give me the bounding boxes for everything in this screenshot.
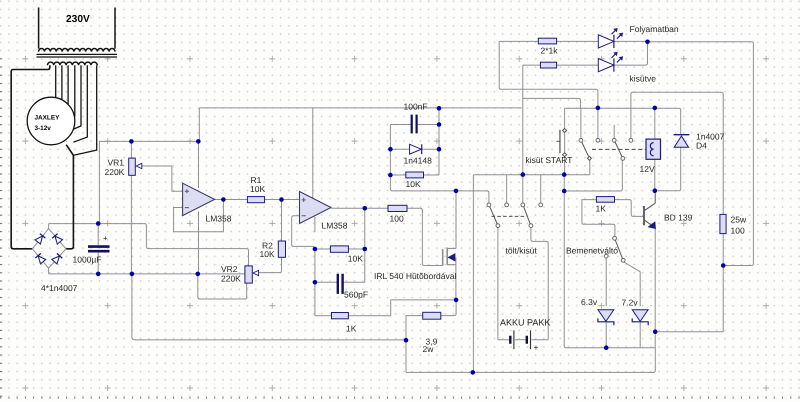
wire charge contact to battery left: [497, 227, 499, 339]
resistor 1K BD139: [596, 197, 614, 203]
wire bus y174.8: [473, 174, 589, 176]
resistor 1K op-amp: [332, 313, 349, 319]
wire LED2 feed: [523, 64, 541, 66]
wire secondary tap 4: [67, 65, 69, 108]
svg-text:+: +: [103, 234, 108, 243]
wire secondary tap 5: [71, 65, 75, 119]
wire 6.3v zener top lead: [605, 258, 607, 306]
switch Bemenetvalto lever: [615, 240, 622, 259]
svg-text:+: +: [534, 343, 539, 353]
svg-text:JAXLEY: JAXLEY: [35, 115, 61, 122]
wire feedback 10K leads: [315, 248, 365, 250]
svg-text:tölt/kisüt: tölt/kisüt: [506, 246, 538, 256]
svg-text:VR1: VR1: [108, 158, 125, 168]
wire op-amp U2 + input: [282, 199, 300, 201]
wire VR1 column x131.4: [130, 141, 132, 274]
wire bridge - output rail y273.9: [49, 268, 245, 274]
svg-text:LM358: LM358: [206, 214, 232, 224]
wire relay contact B common to node: [564, 160, 622, 191]
wire ground column x131.9 to bottom rail: [132, 274, 406, 340]
wire discharge contact to battery right: [531, 227, 548, 339]
svg-text:25w: 25w: [731, 215, 747, 225]
zener diode 6.3v: [598, 310, 614, 322]
pushbutton kisut START: [563, 129, 567, 157]
svg-text:1K: 1K: [596, 204, 607, 214]
battery AKKU PAKK cells: [510, 336, 527, 344]
wire secondary tap 7: [73, 65, 87, 142]
switch tolt/kisut contact 3: [521, 203, 525, 207]
svg-text:220K: 220K: [221, 274, 241, 284]
relay contact A1: [579, 138, 583, 142]
resistor 25w 100: [720, 214, 726, 233]
switch tolt/kisut link: [492, 215, 527, 217]
wire op-amp U2 V+ pin: [312, 108, 314, 198]
wire battery leads: [498, 339, 548, 341]
LED D2 kisutve: [598, 59, 614, 72]
wire column x564.2 with ground elbow: [564, 175, 655, 348]
wire output column x364.8: [364, 208, 366, 282]
wire riser switch contact 2: [506, 175, 508, 203]
switch Bemenetvalto 6.3v contact: [604, 254, 608, 258]
wire op-amp U1 feedback loop: [174, 200, 224, 232]
switch tolt/kisut lever 2: [524, 207, 531, 224]
wire column x473.4: [472, 175, 474, 373]
potentiometer VR1 220K: [129, 158, 136, 175]
wire bottom ground rail y372.4: [406, 348, 655, 373]
wire secondary tap 1 to bridge left: [11, 65, 50, 249]
wire zener bottoms to rail: [606, 322, 640, 348]
svg-text:12V: 12V: [640, 164, 655, 174]
wire MOSFET drain riser x456: [455, 191, 457, 249]
svg-text:230V: 230V: [66, 14, 90, 25]
wire relay contact A1 riser x580.9: [580, 108, 582, 138]
svg-text:LM358: LM358: [322, 221, 348, 231]
relay contact B lever: [615, 142, 622, 157]
wire corner rail riser x199.3: [198, 108, 200, 141]
wire kisutve-feed vertical column x522.8: [522, 65, 524, 175]
diode D4 1n4007: [674, 134, 690, 136]
potentiometer VR2 220K: [245, 266, 252, 283]
relay K1 coil 12V: [646, 139, 661, 159]
wire VR2 bottom return loop: [198, 274, 247, 299]
diode bridge D-BR: [52, 253, 63, 264]
svg-text:Folyamatban: Folyamatban: [630, 24, 679, 34]
wire 100nF left column x390.4: [389, 125, 391, 176]
svg-text:10K: 10K: [250, 184, 265, 194]
resistor 2*1k lower: [540, 62, 556, 68]
wire relay coil leads: [654, 108, 656, 191]
switch tolt/kisut contact 2: [505, 203, 509, 207]
diode bridge D-BL: [35, 253, 46, 264]
wire top +V rail right segment: [565, 108, 681, 135]
wire riser switch contact 4: [540, 175, 542, 203]
wire BD139 emitter column: [654, 228, 656, 347]
wire secondary tap 6: [72, 65, 81, 130]
svg-text:560pF: 560pF: [344, 290, 368, 300]
svg-text:Bemenetváltó: Bemenetváltó: [566, 246, 618, 256]
resistor 10K diode-row: [406, 172, 424, 178]
wire cap column x98.2: [97, 224, 99, 274]
wire MOSFET gate hook: [422, 210, 442, 265]
resistor 2*1k upper: [538, 38, 556, 44]
wire diode 1n4148 leads: [390, 148, 439, 150]
wire stub contact B1: [613, 125, 615, 139]
relay contact B1: [612, 138, 616, 142]
wire pushbutton column x564.6: [564, 108, 566, 174]
capacitor C1 1000uF plates: [88, 247, 110, 252]
svg-text:4*1n4007: 4*1n4007: [41, 283, 78, 293]
svg-text:BD 139: BD 139: [664, 213, 693, 223]
relay contact A lever: [582, 142, 589, 157]
svg-text:3-12v: 3-12v: [35, 125, 52, 132]
svg-text:220K: 220K: [105, 167, 125, 177]
wire 100nF cap leads: [390, 124, 439, 126]
wire bridge + output to cap and staircase to VR2 top: [49, 224, 249, 266]
diode bridge D-TR: [52, 234, 63, 245]
wire riser switch contact 3: [522, 175, 524, 203]
wire 1K BD139 left lead loop to switch: [582, 200, 615, 237]
bridge rectifier diamond: [32, 229, 66, 269]
svg-text:IRL 540 Hûtõbordával: IRL 540 Hûtõbordával: [374, 271, 456, 281]
svg-text:2*1k: 2*1k: [541, 46, 559, 56]
resistor 3,9 2w: [423, 312, 441, 319]
switch tolt/kisut lever 1: [490, 207, 498, 224]
wire riser x99.4 rail to cap node: [98, 141, 100, 223]
switch Bemenetvalto lower contact: [621, 258, 625, 262]
wire jog y98.4 to x580.4: [523, 98, 581, 108]
wire secondary tap 8: [74, 65, 97, 155]
transformer secondary winding: [48, 62, 98, 65]
wire op-amp U1 output row: [215, 199, 300, 201]
transformer TR1 primary winding: [39, 8, 115, 52]
switch tolt/kisut pole 2 common: [529, 224, 533, 228]
wire zener lever diagonal to 7.2v: [624, 262, 640, 306]
svg-text:AKKU PAKK: AKKU PAKK: [500, 318, 550, 328]
switch tolt/kisut contact 4: [539, 203, 543, 207]
resistor 100 gate: [388, 205, 407, 211]
svg-text:7.2v: 7.2v: [622, 298, 639, 308]
wire op-amp U2 output row: [331, 208, 422, 212]
resistor R2 10K: [278, 241, 285, 257]
wire LED supply right rail: [648, 42, 754, 266]
zener diode 7.2v: [632, 310, 648, 322]
transformer core: [37, 54, 118, 57]
wire 10K diode-row leads: [390, 174, 439, 176]
wire top +V rail left segment: [199, 107, 521, 109]
svg-text:kisütve: kisütve: [630, 74, 657, 84]
svg-text:6.3v: 6.3v: [581, 297, 598, 307]
op-amp U1 LM358: [183, 183, 215, 215]
diode D 1n4148: [410, 144, 422, 154]
wire R2 column: [259, 200, 282, 273]
wire source node to 1K: [391, 300, 456, 316]
wire op-amp U2 V- stub: [314, 217, 316, 233]
svg-text:D4: D4: [696, 141, 707, 151]
svg-text:10K: 10K: [406, 179, 421, 189]
capacitor 100nF: [412, 115, 417, 134]
wire op-amp U1 V- pin to rail: [198, 212, 200, 274]
wire +V sub-rail y141.4: [99, 140, 198, 142]
wire resistor 3,9 left lead down x406: [406, 316, 423, 373]
svg-text:10K: 10K: [348, 254, 363, 264]
svg-text:1000µF: 1000µF: [73, 255, 102, 265]
svg-text:1n4148: 1n4148: [404, 156, 433, 166]
capacitor 560pF: [338, 274, 343, 294]
wire selector output to bridge right: [66, 145, 74, 249]
svg-text:2w: 2w: [423, 344, 435, 354]
switch Bemenetvalto upper contact: [613, 236, 617, 240]
switch tolt/kisut pole 1 common: [496, 224, 500, 228]
svg-text:10K: 10K: [260, 249, 275, 259]
wire 1K BD139 right lead to base: [615, 200, 645, 217]
wire 560pF leads: [315, 281, 365, 283]
diode bridge D-TL: [35, 234, 46, 245]
wire inverting node column x314.9: [315, 249, 332, 316]
wire contact B2 loop over to 25w resistor: [631, 92, 723, 214]
wire 1K op-amp right lead: [348, 315, 390, 317]
wire 25w bottom to emitter rail: [655, 234, 723, 332]
junction dots: [129, 139, 134, 144]
wire secondary tap 3: [61, 65, 63, 103]
wire LED1 feed: [499, 40, 538, 42]
LED D1 Folyamatban: [598, 35, 614, 48]
svg-text:100: 100: [390, 214, 404, 224]
resistor 10K feedback: [330, 246, 348, 252]
wire MOSFET source column: [455, 257, 457, 300]
wire VR1 wiper to op-amp U1 + input: [142, 166, 183, 191]
svg-text:VR2: VR2: [221, 264, 238, 274]
rotary selector S1 Jaxley circle: [27, 97, 75, 145]
wire relay contact A lever-end drop x589.8: [589, 160, 591, 175]
wire LED1 row leads: [557, 40, 648, 42]
relay contact A lever diamond: [587, 156, 591, 160]
wire op-amp U2 - input loop: [292, 216, 315, 249]
wire right column x439: [438, 108, 440, 175]
svg-text:100nF: 100nF: [404, 102, 428, 112]
switch tolt/kisut contact 1: [487, 203, 491, 207]
wire collector node to diode D4: [655, 147, 681, 190]
wire op-amp U1 V+ pin from rail: [198, 141, 200, 188]
op-amp U2 LM358: [300, 192, 332, 224]
relay mechanical link dashed: [592, 148, 646, 150]
wire resistor 3,9 right lead to source node: [441, 300, 456, 316]
svg-text:100: 100: [731, 226, 745, 236]
svg-text:kisüt START: kisüt START: [526, 155, 573, 165]
svg-text:1K: 1K: [346, 324, 357, 334]
wire LED2 row leads: [557, 42, 648, 65]
relay contact B2: [629, 138, 633, 142]
wire 10K-column to switch contact 1: [390, 175, 489, 203]
wire LED1 feed loop to contact A2: [499, 41, 598, 138]
resistor R1 10K: [247, 197, 264, 203]
relay contact B common circle: [621, 157, 625, 161]
wire secondary tap 2: [55, 65, 57, 99]
transistor Q1 IRL540: [442, 249, 444, 266]
transistor Q2 BD139: [643, 206, 645, 225]
relay contact A2: [596, 138, 600, 142]
